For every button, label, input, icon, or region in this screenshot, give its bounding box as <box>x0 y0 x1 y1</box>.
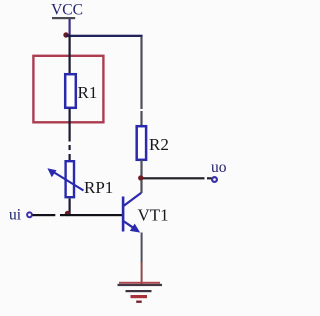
wire RP1 down to node B <box>69 199 71 215</box>
potentiometer RP1 <box>47 161 113 197</box>
input terminal ui <box>9 207 32 224</box>
VCC power bar symbol <box>52 17 75 19</box>
wire VCC bar to junction A <box>69 19 71 36</box>
svg-text:VCC: VCC <box>51 2 83 19</box>
red highlight box around R1 <box>33 56 103 123</box>
output terminal uo <box>211 159 227 182</box>
wire right branch vertical down to R2 <box>140 37 142 126</box>
transistor VT1 <box>122 193 169 233</box>
svg-text:R2: R2 <box>149 135 169 154</box>
wire node C to output terminal <box>143 177 212 179</box>
svg-text:VT1: VT1 <box>138 206 169 225</box>
wire top horizontal from node A to right branch <box>66 35 143 37</box>
resistor R1 <box>65 74 97 108</box>
svg-text:R1: R1 <box>78 83 98 102</box>
node C junction dot <box>138 175 143 180</box>
wire emitter down to ground <box>141 233 143 285</box>
resistor R2 <box>137 126 169 160</box>
svg-text:ui: ui <box>9 207 22 224</box>
svg-text:RP1: RP1 <box>84 178 113 197</box>
node A junction dot <box>63 32 68 37</box>
node B junction dot <box>65 211 70 216</box>
wire R2 down to node C <box>140 160 142 178</box>
wire node A down to R1 <box>69 35 71 74</box>
wire R1 down to RP1 (with break) <box>69 109 71 162</box>
ground <box>118 282 163 303</box>
wire ui to transistor base <box>33 214 123 216</box>
svg-text:uo: uo <box>211 159 227 176</box>
wire collector up to node C <box>140 180 142 193</box>
